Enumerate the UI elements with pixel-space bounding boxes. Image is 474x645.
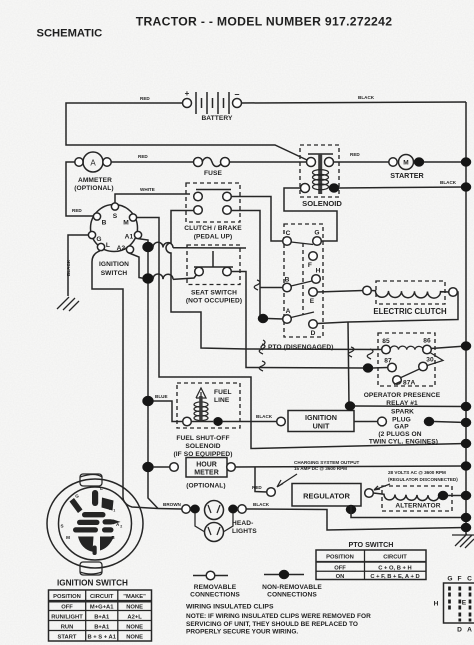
- svg-text:START: START: [58, 635, 77, 641]
- svg-text:(OPTIONAL): (OPTIONAL): [74, 185, 113, 192]
- svg-text:G: G: [75, 494, 79, 499]
- svg-text:RUN/LIGHT: RUN/LIGHT: [51, 614, 83, 620]
- clip squiggle on 85 wire right: [367, 349, 373, 359]
- svg-text:M+G+A1: M+G+A1: [90, 604, 114, 610]
- svg-text:SOLENOID: SOLENOID: [302, 199, 342, 208]
- svg-text:A: A: [467, 627, 472, 634]
- ignition switch SW1: [88, 203, 141, 253]
- svg-text:SERVICING OF UNIT, THEY SHOULD: SERVICING OF UNIT, THEY SHOULD BE REPLAC…: [186, 621, 358, 628]
- node bus 466: [461, 462, 471, 471]
- svg-text:BLUE: BLUE: [155, 394, 168, 399]
- svg-text:B: B: [102, 220, 107, 227]
- svg-text:CIRCUIT: CIRCUIT: [383, 555, 407, 561]
- wire loop clutch bottom-left: [166, 211, 246, 350]
- wire black G to ground: [66, 235, 88, 296]
- headlights E1 E2: [182, 501, 257, 542]
- svg-text:CLUTCH / BRAKE: CLUTCH / BRAKE: [184, 225, 242, 232]
- wire clutch bottom-right to PTO B/A: [231, 211, 260, 319]
- hour meter M2: [153, 458, 235, 490]
- svg-text:SCHEMATIC: SCHEMATIC: [37, 28, 103, 40]
- svg-text:M: M: [403, 160, 408, 167]
- svg-text:FUEL SHUT-OFF: FUEL SHUT-OFF: [176, 435, 229, 442]
- svg-text:HEAD-: HEAD-: [232, 520, 253, 527]
- svg-text:F: F: [308, 262, 312, 269]
- svg-text:TWIN CYL. ENGINES): TWIN CYL. ENGINES): [369, 438, 438, 445]
- svg-text:OPERATOR PRESENCE: OPERATOR PRESENCE: [364, 392, 441, 399]
- clutch/brake switch box: [186, 183, 240, 222]
- svg-text:(NOT OCCUPIED): (NOT OCCUPIED): [186, 298, 242, 305]
- fuel shut-off box: [177, 383, 240, 428]
- svg-text:NONE: NONE: [126, 604, 143, 610]
- connector outer shell: [47, 474, 143, 575]
- ignition unit U1: [277, 411, 354, 432]
- svg-text:REMOVABLE: REMOVABLE: [194, 584, 237, 591]
- clip squiggle on 85 wire left: [259, 344, 265, 354]
- battery B1: [183, 89, 242, 122]
- svg-text:AMMETER: AMMETER: [78, 177, 112, 184]
- svg-text:SWITCH: SWITCH: [101, 270, 128, 277]
- svg-text:1: 1: [113, 509, 115, 513]
- wire junction2 to seat switch left: [153, 274, 163, 279]
- seat switch box: [187, 245, 240, 285]
- spark plug gap: [354, 409, 466, 446]
- wire red ammeter-ignition B: [66, 162, 93, 216]
- svg-text:BLACK: BLACK: [358, 95, 375, 100]
- svg-text:15 AMP DC @ 3600 RPM: 15 AMP DC @ 3600 RPM: [294, 466, 347, 471]
- regulator VR1: [252, 484, 373, 507]
- svg-text:C + F, B + E, A + D: C + F, B + E, A + D: [370, 574, 419, 580]
- svg-text:POSITION: POSITION: [53, 594, 81, 600]
- node blue: [143, 396, 154, 406]
- wire to PTO B: [260, 287, 283, 289]
- solenoid box: [300, 145, 339, 197]
- svg-text:G: G: [314, 230, 319, 237]
- svg-text:LIGHTS: LIGHTS: [232, 528, 257, 535]
- wire battery red (left): [66, 96, 307, 160]
- svg-text:RUN: RUN: [61, 625, 74, 631]
- node wire2 to 87: [363, 364, 373, 373]
- svg-text:A2: A2: [117, 245, 126, 252]
- node ignition unit top feed: [345, 402, 355, 411]
- svg-text:BLACK: BLACK: [440, 180, 457, 185]
- wire D branch down to ignition unit top: [348, 322, 349, 406]
- clutch/brake switch SW2: [184, 190, 242, 241]
- node bus 527: [461, 523, 471, 532]
- wire to relay 85: [246, 348, 382, 351]
- wire E to electric clutch: [317, 291, 363, 293]
- connector key pattern: [70, 490, 121, 555]
- wire black fuel to ignition unit: [240, 414, 277, 422]
- node A1 junction 1: [143, 242, 154, 252]
- node hour meter junction: [143, 462, 154, 472]
- non-removable connection symbol: [262, 570, 322, 599]
- PTO switch internal divider: [302, 243, 304, 315]
- PTO disengaged label with brace: [261, 340, 334, 351]
- svg-text:BROWN: BROWN: [163, 502, 182, 507]
- svg-text:S: S: [60, 524, 63, 529]
- svg-text:TRACTOR - - MODEL NUMBER 917.2: TRACTOR - - MODEL NUMBER 917.272242: [136, 15, 393, 29]
- svg-text:BLACK: BLACK: [253, 502, 270, 507]
- clip squiggle B-wire: [254, 280, 260, 290]
- svg-text:ELECTRIC CLUTCH: ELECTRIC CLUTCH: [373, 307, 447, 316]
- wire solenoid lower-left to PTO G: [284, 188, 337, 241]
- ground right bus: [452, 534, 474, 548]
- svg-text:RED: RED: [350, 152, 360, 157]
- wire to PTO A: [268, 318, 283, 321]
- wire battery black (right to bus): [242, 95, 467, 103]
- svg-text:LINE: LINE: [214, 397, 230, 404]
- svg-text:B+A1: B+A1: [94, 625, 110, 631]
- wire seat right to relay 87 feed: [231, 272, 363, 369]
- wire alternator to bus: [448, 495, 466, 497]
- wire 86 to 30 zigzag: [427, 353, 443, 366]
- wire M to right bus (bottom route): [137, 218, 466, 449]
- svg-text:L: L: [100, 486, 103, 491]
- svg-text:HOUR: HOUR: [196, 462, 217, 469]
- svg-text:POSITION: POSITION: [326, 555, 354, 561]
- fuel shut-off solenoid Y1: [173, 388, 240, 458]
- svg-text:A: A: [90, 159, 96, 168]
- note text: [186, 613, 371, 636]
- svg-text:D: D: [457, 627, 462, 634]
- node A1 junction 2: [143, 274, 154, 284]
- electric clutch box: [376, 281, 445, 304]
- clip squiggle wire2: [259, 361, 265, 371]
- svg-text:FUSE: FUSE: [204, 170, 222, 177]
- wire fuse to solenoid: [230, 161, 308, 163]
- wire hour meter to bus: [235, 466, 466, 467]
- svg-text:WIRING INSULATED CLIPS: WIRING INSULATED CLIPS: [186, 604, 274, 611]
- svg-text:C: C: [467, 576, 472, 583]
- node bus 495: [461, 491, 471, 500]
- wire starter to bus: [424, 161, 466, 163]
- svg-text:G: G: [96, 236, 101, 243]
- svg-text:OFF: OFF: [61, 604, 73, 610]
- svg-text:BATTERY: BATTERY: [201, 115, 233, 122]
- solenoid internals: [301, 154, 343, 208]
- svg-text:RED: RED: [72, 208, 82, 213]
- right bus wire: [465, 102, 467, 535]
- svg-text:RED: RED: [140, 96, 150, 101]
- svg-text:F: F: [457, 576, 461, 583]
- wire red ammeter-fuse: [111, 154, 194, 162]
- svg-text:C: C: [286, 230, 291, 237]
- svg-text:BLACK: BLACK: [66, 259, 71, 276]
- wire blue junction to fuel solenoid: [148, 394, 182, 422]
- svg-text:G: G: [447, 576, 452, 583]
- node bus 422: [461, 418, 471, 427]
- svg-text:30: 30: [426, 357, 434, 364]
- charging system output note: [277, 460, 360, 487]
- svg-text:M: M: [123, 220, 129, 227]
- seat switch SW3: [186, 251, 242, 305]
- fuse F1: [194, 158, 230, 178]
- clip squiggle on 85 wire mid: [348, 347, 354, 357]
- svg-text:PLUG: PLUG: [392, 417, 411, 424]
- svg-text:NONE: NONE: [126, 635, 143, 641]
- svg-text:+: +: [185, 89, 190, 98]
- svg-text:E: E: [462, 600, 467, 607]
- svg-text:–: –: [234, 89, 239, 99]
- wire A2 to junction2: [129, 253, 143, 278]
- svg-text:OFF: OFF: [334, 565, 346, 571]
- svg-text:2: 2: [120, 525, 122, 529]
- wire ignition unit top to bus: [355, 405, 466, 408]
- svg-text:CHARGING SYSTEM OUTPUT: CHARGING SYSTEM OUTPUT: [294, 460, 360, 465]
- svg-text:H: H: [316, 268, 321, 275]
- node M-wire bus: [461, 439, 471, 448]
- relay K1: [364, 338, 441, 408]
- svg-text:CONNECTIONS: CONNECTIONS: [190, 592, 240, 599]
- svg-text:B+A1: B+A1: [94, 614, 110, 620]
- 28 volts note: [374, 470, 458, 490]
- svg-text:CONNECTIONS: CONNECTIONS: [267, 592, 317, 599]
- PTO switch SW4: [283, 230, 322, 338]
- relay box: [378, 333, 435, 386]
- svg-text:(2 PLUGS ON: (2 PLUGS ON: [378, 431, 421, 438]
- svg-text:RED: RED: [138, 154, 148, 159]
- svg-text:B: B: [285, 277, 290, 284]
- svg-text:H: H: [434, 601, 439, 608]
- svg-text:(OPTIONAL): (OPTIONAL): [186, 483, 225, 490]
- svg-text:86: 86: [423, 338, 431, 345]
- wire brown: [158, 502, 182, 509]
- svg-text:BLACK: BLACK: [256, 414, 273, 419]
- ground left: [57, 297, 79, 311]
- node bus 406: [461, 402, 471, 411]
- wire white S to clutch: [115, 187, 190, 203]
- svg-text:D: D: [311, 330, 316, 337]
- svg-text:87A: 87A: [403, 380, 416, 387]
- svg-text:(PEDAL UP): (PEDAL UP): [194, 234, 233, 241]
- ammeter A1 (optional): [74, 152, 113, 192]
- PTO switch box: [284, 224, 323, 337]
- wire D to electric clutch right + relay feed: [317, 292, 458, 324]
- svg-text:NONE: NONE: [126, 625, 143, 631]
- node regulator bottom: [346, 505, 356, 514]
- svg-text:UNIT: UNIT: [313, 422, 330, 431]
- ignition switch label: [99, 261, 129, 277]
- wire A1 down (accessory feed): [138, 239, 158, 509]
- node relay bus: [461, 342, 471, 351]
- svg-text:L: L: [106, 242, 110, 249]
- svg-text:28 VOLTS AC @ 3600 RPM: 28 VOLTS AC @ 3600 RPM: [388, 470, 446, 475]
- svg-text:A: A: [286, 308, 291, 315]
- svg-text:STARTER: STARTER: [390, 171, 424, 180]
- wire clutch TR to PTO C: [231, 197, 282, 242]
- svg-text:REGULATOR: REGULATOR: [303, 492, 350, 501]
- svg-text:PROPERLY SECURE YOUR WIRING.: PROPERLY SECURE YOUR WIRING.: [186, 629, 298, 636]
- svg-text:IGNITION SWITCH: IGNITION SWITCH: [57, 579, 128, 588]
- svg-text:A1: A1: [125, 234, 134, 241]
- removable connection symbol: [190, 571, 240, 598]
- wire solenoid to starter (red): [334, 152, 390, 162]
- node starter bus: [461, 158, 471, 167]
- svg-text:PTO SWITCH: PTO SWITCH: [349, 540, 394, 549]
- wire 86 to bus: [431, 346, 466, 349]
- svg-text:85: 85: [382, 338, 390, 345]
- wire L to headlights (left outline): [92, 251, 158, 509]
- starter M1: [389, 155, 425, 181]
- svg-text:GAP: GAP: [394, 424, 409, 431]
- node solenoid bus: [461, 183, 471, 192]
- svg-text:SPARK: SPARK: [391, 409, 414, 416]
- svg-text:ALTERNATOR: ALTERNATOR: [395, 503, 440, 510]
- svg-text:METER: METER: [194, 470, 219, 477]
- svg-text:"MAKE": "MAKE": [123, 594, 146, 600]
- svg-text:CIRCUIT: CIRCUIT: [90, 594, 114, 600]
- svg-text:M: M: [66, 535, 70, 540]
- wire black headlights to bus/ground: [246, 502, 466, 530]
- svg-text:SOLENOID: SOLENOID: [185, 443, 220, 450]
- svg-text:RED: RED: [252, 485, 262, 490]
- svg-text:E: E: [310, 298, 315, 305]
- wire junction1 to seat feed vertical: [153, 242, 163, 247]
- svg-text:NOTE: IF WIRING INSULATED CLIP: NOTE: IF WIRING INSULATED CLIPS WERE REM…: [186, 613, 371, 620]
- electric clutch L1: [363, 286, 458, 316]
- wire regulator bottom to bus: [351, 506, 466, 518]
- wire solenoid lower-right to bus (black): [339, 180, 466, 188]
- svg-text:ON: ON: [336, 574, 345, 580]
- svg-text:B + S + A1: B + S + A1: [87, 635, 116, 641]
- node A-wire: [258, 314, 268, 323]
- svg-text:NON-REMOVABLE: NON-REMOVABLE: [262, 584, 322, 591]
- wire node to 87: [373, 367, 388, 370]
- connector terminal letters: [60, 486, 122, 540]
- svg-text:C + O, B + H: C + O, B + H: [378, 565, 412, 571]
- svg-text:A2+L: A2+L: [127, 614, 142, 620]
- svg-text:S: S: [113, 213, 118, 220]
- svg-text:IGNITION: IGNITION: [99, 261, 129, 268]
- svg-text:FUEL: FUEL: [214, 389, 232, 396]
- svg-text:WHITE: WHITE: [140, 187, 155, 192]
- wire branch to regulator red: [255, 467, 267, 492]
- svg-text:(REGULATOR DISCONNECTED): (REGULATOR DISCONNECTED): [388, 477, 458, 482]
- node bus 517: [461, 513, 471, 522]
- alternator G1: [373, 486, 452, 511]
- svg-text:SEAT SWITCH: SEAT SWITCH: [191, 290, 237, 297]
